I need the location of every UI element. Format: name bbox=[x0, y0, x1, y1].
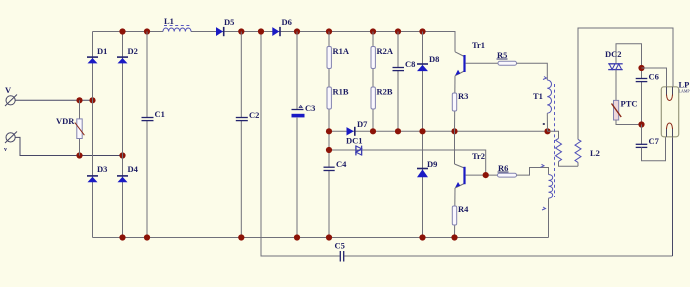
node top rail return bbox=[258, 28, 264, 34]
node top rail C1 bbox=[144, 28, 150, 34]
svg-text:D7: D7 bbox=[357, 119, 368, 129]
capacitor C2 bbox=[236, 110, 260, 121]
node AC2-D2D4 junction bbox=[119, 152, 125, 158]
inductor L2 bbox=[575, 139, 600, 166]
node AC1-D1 junction bbox=[89, 97, 95, 103]
transformer T1 bottom winding bbox=[541, 164, 553, 210]
node bottom rail C2 bbox=[238, 234, 244, 240]
resistor R1A bbox=[327, 46, 350, 69]
inductor L1 bbox=[163, 16, 191, 32]
wire R6 to T1 bottom winding bbox=[517, 168, 549, 176]
diac DC1 bbox=[346, 136, 363, 156]
node bottom rail C3 bbox=[294, 234, 300, 240]
svg-text:C2: C2 bbox=[249, 110, 259, 120]
wire R2A/R2B branch bbox=[372, 32, 374, 132]
svg-text:R2B: R2B bbox=[377, 87, 393, 97]
node top rail D8 bbox=[419, 28, 425, 34]
transistor Tr1 bbox=[455, 40, 498, 76]
svg-text:LAMP: LAMP bbox=[679, 89, 690, 94]
capacitor C1 bbox=[142, 109, 165, 121]
capacitor C8 bbox=[393, 59, 416, 71]
wire lamp bottom right pin to return rail bbox=[672, 137, 674, 256]
wire lower return rail bbox=[261, 32, 340, 257]
wire VDR branch bbox=[79, 100, 81, 155]
node top rail C8 bbox=[395, 28, 401, 34]
wire bottom rail bbox=[93, 237, 549, 239]
wire D8 branch bbox=[422, 32, 424, 132]
node VDR bottom junction bbox=[76, 152, 82, 158]
diode D1 bbox=[87, 46, 107, 63]
wire C8 branch bbox=[397, 32, 399, 68]
node top rail R1A bbox=[326, 28, 332, 34]
resistor R1B bbox=[327, 87, 349, 110]
wire L2 to lamp top bbox=[578, 28, 673, 139]
wire C1 branch bbox=[146, 32, 148, 118]
wire C3 branch bbox=[296, 32, 298, 110]
diode D6 bbox=[272, 17, 292, 36]
wire D9 branch bbox=[422, 131, 424, 237]
wire AC input bottom with jog bbox=[16, 137, 123, 155]
wire D1/D3 vertical branch bbox=[92, 32, 94, 238]
wire C2 branch bbox=[240, 32, 242, 118]
node top rail D2 bbox=[119, 28, 125, 34]
resistor R6 bbox=[498, 163, 517, 177]
wire D2/D4 vertical branch bbox=[122, 32, 124, 238]
diode D5 bbox=[216, 17, 234, 36]
svg-text:D3: D3 bbox=[97, 164, 107, 174]
node bottom rail D4 bbox=[119, 234, 125, 240]
lamp LP bbox=[661, 80, 690, 137]
svg-text:C8: C8 bbox=[405, 59, 415, 69]
wire T1 bottom winding to bottom rail bbox=[548, 198, 550, 237]
node mid row D8/D9 bbox=[419, 128, 425, 134]
svg-text:VDR: VDR bbox=[56, 116, 75, 126]
resistor R3 bbox=[452, 91, 468, 111]
svg-text:C5: C5 bbox=[335, 241, 345, 251]
node top rail C3 bbox=[294, 28, 300, 34]
node top rail R2A bbox=[370, 28, 376, 34]
svg-text:R3: R3 bbox=[458, 91, 468, 101]
node top rail C2 bbox=[238, 28, 244, 34]
node Tr2 base / diac bbox=[483, 172, 489, 178]
capacitor C5 bbox=[335, 241, 345, 262]
node mid row C8 bbox=[395, 128, 401, 134]
node mid row R3 bbox=[451, 128, 457, 134]
resistor R2B bbox=[371, 87, 393, 110]
svg-text:Tr2: Tr2 bbox=[472, 151, 485, 161]
svg-text:R5: R5 bbox=[497, 50, 507, 60]
svg-text:R6: R6 bbox=[498, 163, 508, 173]
transformer T1 middle winding bbox=[548, 131, 579, 166]
diode D3 bbox=[87, 164, 107, 182]
svg-text:R1B: R1B bbox=[333, 87, 349, 97]
wire Tr1 emitter to R3 bbox=[454, 76, 457, 132]
svg-text:V: V bbox=[5, 85, 12, 95]
svg-text:PTC: PTC bbox=[621, 99, 638, 109]
capacitor C3 polarized bbox=[292, 103, 316, 117]
svg-text:R1A: R1A bbox=[333, 46, 350, 56]
wire C6 branch bbox=[641, 68, 643, 78]
wire C7 branch bbox=[641, 125, 643, 145]
svg-text:v: v bbox=[4, 147, 7, 153]
diode D7 bbox=[347, 119, 369, 136]
wire C7 to lamp bottom left pin bbox=[642, 137, 666, 161]
svg-text:T1: T1 bbox=[533, 91, 543, 101]
wire AC input top bbox=[15, 99, 92, 101]
resistor R2A bbox=[371, 46, 394, 69]
node X C6 top bbox=[638, 65, 644, 71]
T1 polarity dot bbox=[543, 123, 545, 125]
transformer T1 top winding bbox=[533, 77, 552, 114]
wire top rail bbox=[93, 31, 164, 33]
svg-text:D8: D8 bbox=[429, 54, 439, 64]
svg-text:R2A: R2A bbox=[377, 46, 394, 56]
source terminal v (bottom) bbox=[4, 132, 17, 154]
diode D4 bbox=[117, 164, 139, 182]
svg-text:C3: C3 bbox=[305, 103, 315, 113]
svg-text:C1: C1 bbox=[155, 109, 165, 119]
resistor R4 bbox=[452, 204, 469, 225]
capacitor C7 bbox=[636, 136, 660, 147]
wire DC2 to PTC bbox=[615, 70, 617, 101]
node bottom rail D9 bbox=[419, 234, 425, 240]
svg-text:D5: D5 bbox=[224, 17, 234, 27]
node bottom rail C1 bbox=[144, 234, 150, 240]
wire Tr2 emitter to R4 bbox=[454, 188, 457, 238]
wire DC2/PTC branch top jog bbox=[616, 44, 642, 68]
transformer T1 core bbox=[554, 84, 556, 197]
wire R5 to T1 top winding bbox=[517, 63, 548, 80]
wire R1A/R1B branch bbox=[328, 32, 330, 167]
wire T1 top winding to mid row bbox=[546, 113, 548, 131]
svg-text:D1: D1 bbox=[97, 46, 107, 56]
svg-text:D9: D9 bbox=[427, 159, 437, 169]
svg-text:R4: R4 bbox=[458, 204, 469, 214]
wire mid row (base bus) bbox=[329, 130, 548, 132]
transistor Tr2 bbox=[455, 151, 498, 188]
svg-text:D2: D2 bbox=[128, 46, 138, 56]
wire node X to lamp bbox=[642, 68, 667, 87]
svg-text:C7: C7 bbox=[649, 136, 660, 146]
wire diac row bbox=[329, 150, 486, 175]
node Y C6 bottom bbox=[638, 121, 644, 127]
svg-text:D6: D6 bbox=[282, 17, 292, 27]
diode D2 bbox=[117, 46, 138, 63]
wire PTC to node Y bbox=[616, 120, 642, 125]
node mid row R1 bbox=[326, 128, 332, 134]
svg-text:DC2: DC2 bbox=[605, 49, 622, 59]
diode D9 bbox=[417, 159, 437, 177]
varistor VDR bbox=[56, 116, 84, 139]
svg-text:C4: C4 bbox=[336, 159, 347, 169]
capacitor C4 bbox=[324, 159, 348, 171]
svg-text:Tr1: Tr1 bbox=[472, 40, 485, 50]
svg-text:L2: L2 bbox=[590, 148, 600, 158]
wire Tr2 collector from mid row bbox=[454, 131, 456, 164]
source terminal V (top) bbox=[5, 85, 17, 106]
svg-text:C6: C6 bbox=[649, 72, 659, 82]
svg-text:DC1: DC1 bbox=[346, 136, 363, 146]
node AC1-VDR junction bbox=[76, 97, 82, 103]
diac DC2 bbox=[605, 49, 623, 70]
diode D8 bbox=[417, 54, 439, 71]
thermistor PTC bbox=[612, 99, 638, 121]
node mid row T1 bbox=[544, 128, 550, 134]
svg-text:L1: L1 bbox=[164, 16, 174, 26]
svg-text:D4: D4 bbox=[128, 164, 139, 174]
node mid row R2 bbox=[370, 128, 376, 134]
node diac row left bbox=[326, 147, 332, 153]
node bottom rail R4 bbox=[451, 234, 457, 240]
resistor R5 bbox=[497, 50, 517, 65]
node bottom rail C4 bbox=[326, 234, 332, 240]
capacitor C6 bbox=[636, 72, 659, 82]
